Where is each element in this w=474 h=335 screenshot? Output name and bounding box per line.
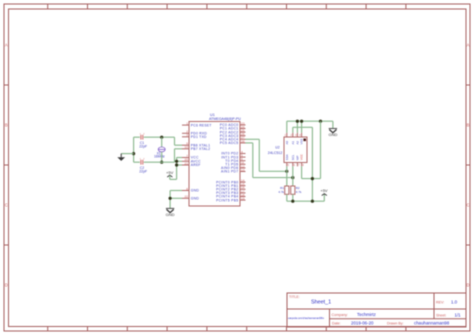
svg-text:REV:: REV: xyxy=(436,301,444,305)
U1 pin 8 (GND) xyxy=(182,187,199,193)
+5V power symbol (EEPROM) xyxy=(320,188,328,195)
wire XTAL1 stub xyxy=(175,144,183,146)
svg-text:C: C xyxy=(5,203,8,208)
C2 value 22pF xyxy=(139,169,147,173)
capacitor C2 xyxy=(140,158,146,164)
U1 pin 21 (AREF) xyxy=(182,161,201,167)
U2 value 24LC512 xyxy=(268,151,283,155)
svg-text:B: B xyxy=(5,123,8,128)
svg-text:+5V: +5V xyxy=(166,170,174,175)
node crystal bottom junction xyxy=(160,161,163,164)
wire SDA rail xyxy=(259,170,287,172)
U2 pin 6 (SCL) bottom xyxy=(291,154,296,167)
wire second rail xyxy=(293,126,313,128)
U2 pin 8 (VCC) bottom xyxy=(300,154,305,167)
wire right long vertical xyxy=(311,127,313,201)
U1 pin 26 (PC3 ADC3) xyxy=(220,132,246,138)
svg-text:PCINT5 PB5: PCINT5 PB5 xyxy=(216,198,238,202)
svg-text:Techmirtz: Techmirtz xyxy=(357,312,376,317)
U1 pin 22 (GND) xyxy=(182,195,199,201)
svg-text:GND: GND xyxy=(166,212,175,217)
U1 pin 17 (PCINT3 PB3) xyxy=(216,189,245,195)
svg-text:Date:: Date: xyxy=(332,322,341,326)
U2 pin 5 (SDA) bottom xyxy=(285,154,290,167)
svg-text:PC6 RESET: PC6 RESET xyxy=(191,123,212,127)
wire crystal bottom lead xyxy=(161,152,163,162)
node AVCC junction xyxy=(175,160,178,163)
svg-text:GND: GND xyxy=(328,132,337,137)
R1 label xyxy=(280,186,284,190)
R2 label xyxy=(296,186,300,190)
svg-text:Company:: Company: xyxy=(332,313,348,317)
wire U2 VCC drop xyxy=(301,166,303,178)
U1 pin 10 (PB7 XTAL2) xyxy=(182,145,210,151)
R1 value 4.7k xyxy=(278,190,284,194)
U2 reference designator xyxy=(275,146,279,150)
C1 label xyxy=(140,141,144,145)
U1 pin 5 (INT1 PD3) xyxy=(221,154,245,160)
svg-text:8: 8 xyxy=(186,187,188,191)
wire SCL rail xyxy=(253,177,293,179)
ground (top right) xyxy=(328,129,337,138)
wire GND top rail xyxy=(287,120,333,122)
X1 label xyxy=(157,151,161,155)
X1 value 16MHz xyxy=(154,155,165,159)
svg-text:PC5 ADC5: PC5 ADC5 xyxy=(220,141,239,145)
svg-text:1: 1 xyxy=(186,122,188,126)
wire bottom rail C2 to corner xyxy=(144,161,175,163)
+5V power symbol (near U1) xyxy=(166,170,174,177)
wire VCC horizontal xyxy=(302,178,321,180)
U2 pin 3 (A2) top xyxy=(295,133,299,145)
svg-text:PD1 TXD: PD1 TXD xyxy=(191,135,207,139)
wire PC5/SCL horizontal from pin xyxy=(246,142,253,144)
svg-text:A1: A1 xyxy=(291,141,295,145)
svg-text:13: 13 xyxy=(241,168,245,172)
wire R2 bottom xyxy=(292,194,294,201)
node GND junction xyxy=(169,197,172,200)
C2 label xyxy=(140,166,144,170)
svg-text:A: A xyxy=(5,43,8,48)
wire top rail to C1 xyxy=(134,136,140,138)
U1 pin 7 (VCC) xyxy=(182,154,199,160)
U1 pin 2 (PD0 RXD) xyxy=(182,130,207,136)
wire left vertical of crystal loop xyxy=(133,137,135,162)
svg-text:Sheet_1: Sheet_1 xyxy=(311,300,331,306)
svg-text:D: D xyxy=(5,283,8,288)
U2 pin 1 (A0) top xyxy=(285,133,289,145)
R2 value 4.7k xyxy=(296,190,302,194)
svg-text:B: B xyxy=(467,123,470,128)
title block xyxy=(287,293,466,327)
U1 pin 24 (PC1 ADC1) xyxy=(220,125,246,131)
svg-text:TITLE:: TITLE: xyxy=(289,295,300,299)
wire U2 pin3 drop xyxy=(296,121,298,133)
wire PC5/SCL vertical xyxy=(252,143,254,178)
wire VCC tie vertical xyxy=(176,158,178,180)
svg-text:3: 3 xyxy=(186,133,188,137)
wire GND corner vertical xyxy=(332,121,334,128)
svg-text:D: D xyxy=(466,283,469,288)
node VCC junction xyxy=(311,177,314,180)
svg-text:4.7k: 4.7k xyxy=(296,190,302,194)
wire XTAL2 stub xyxy=(175,148,183,150)
capacitor C1 xyxy=(140,133,146,139)
wire XTAL2 corner vertical xyxy=(174,149,176,162)
U2 pin 2 (A1) top xyxy=(291,133,295,145)
U1 pin 3 (PD1 TXD) xyxy=(182,133,207,139)
svg-text:AIN1 PD7: AIN1 PD7 xyxy=(221,170,238,174)
U1 pin 16 (PCINT2 PB2) xyxy=(216,186,245,192)
row letters A-D xyxy=(5,43,470,288)
node R2 bottom junction xyxy=(291,200,294,203)
U1 pin 12 (AIN0 PD6) xyxy=(221,164,245,170)
node SCL junction xyxy=(291,176,294,179)
U1 pin 13 (AIN1 PD7) xyxy=(221,168,245,174)
svg-text:21: 21 xyxy=(185,161,189,165)
wire GND pin 8 xyxy=(170,190,182,192)
wire U2 pin2 drop xyxy=(292,127,294,132)
wire SCL drop to R2 xyxy=(292,166,294,186)
wire crystal top lead xyxy=(161,137,163,147)
svg-text:A0: A0 xyxy=(285,141,289,145)
svg-text:GND: GND xyxy=(191,189,200,193)
ground (left, arrow style) xyxy=(117,154,125,161)
node C1/C2 ground junction xyxy=(132,152,135,155)
U1 pin 4 (INT0 PD2) xyxy=(221,150,245,156)
wire PC4/SDA vertical xyxy=(258,139,260,171)
svg-text:4.7k: 4.7k xyxy=(278,190,284,194)
svg-text:1/1: 1/1 xyxy=(455,312,462,317)
wire U2 pin4 drop xyxy=(301,121,303,133)
U1 pin 9 (PB6 XTAL1) xyxy=(182,142,210,148)
svg-text:22pF: 22pF xyxy=(139,144,147,148)
svg-text:19: 19 xyxy=(241,197,245,201)
svg-text:2019-06-20: 2019-06-20 xyxy=(351,321,374,326)
svg-text:U2: U2 xyxy=(275,146,279,150)
svg-text:16MHz: 16MHz xyxy=(154,155,165,159)
wire SDA drop to R1 xyxy=(286,166,288,186)
svg-text:PB7 XTAL2: PB7 XTAL2 xyxy=(191,147,210,151)
wire +5V corner horizontal xyxy=(170,178,177,180)
svg-text:VSS: VSS xyxy=(300,139,304,145)
node AREF junction xyxy=(175,163,178,166)
wire GND drop right xyxy=(320,121,322,178)
svg-text:AREF: AREF xyxy=(191,163,201,167)
wire R1 bottom xyxy=(286,194,288,201)
svg-text:SDA: SDA xyxy=(285,154,289,160)
wire U2 pin1 drop xyxy=(286,121,288,133)
U1 pin 11 (T1 PD5) xyxy=(225,161,245,167)
wire top rail C1 to corner xyxy=(144,136,175,138)
wire GND vertical xyxy=(169,191,171,209)
wire PC4/SDA horizontal from pin xyxy=(246,138,260,140)
ground (under U1) xyxy=(166,208,175,217)
node crystal top junction xyxy=(160,136,163,139)
svg-text:Drawn By:: Drawn By: xyxy=(387,322,404,326)
wire bottom rail to C2 xyxy=(134,161,140,163)
wire +5V stub (EEPROM) xyxy=(323,194,325,201)
node pin3 junction xyxy=(296,120,299,123)
U1 pin 6 (T0 PD4) xyxy=(225,157,245,163)
wire GND pin 22 xyxy=(170,197,182,199)
svg-text:ATMEGA48(8)P-PU: ATMEGA48(8)P-PU xyxy=(209,117,241,121)
svg-text:Sheet:: Sheet: xyxy=(436,313,446,317)
svg-text:GND: GND xyxy=(191,197,200,201)
wire XTAL1 corner vertical xyxy=(174,137,176,145)
node right drop junction xyxy=(319,120,322,123)
U2 pin 4 (VSS) top xyxy=(299,133,303,145)
svg-text:SCL: SCL xyxy=(291,154,295,160)
U1 pin 25 (PC2 ADC2) xyxy=(220,129,246,135)
wire to left ground xyxy=(121,153,133,155)
U2 pin 7 (WP) bottom xyxy=(296,155,301,166)
svg-text:1.0: 1.0 xyxy=(451,300,458,305)
wire +5V stub down xyxy=(169,175,171,179)
wire AREF stub xyxy=(177,164,182,166)
resistor R2 xyxy=(291,186,295,194)
U1 pin 19 (PCINT5 PB5) xyxy=(216,197,245,203)
op IC U1 body xyxy=(189,122,240,207)
U1 pin 18 (PCINT4 PB4) xyxy=(216,193,245,199)
U1 pin 15 (PCINT1 PB1) xyxy=(216,182,245,188)
svg-text:chauhannaman98: chauhannaman98 xyxy=(414,321,450,326)
U1 pin 28 (PC5 ADC5) xyxy=(220,139,246,145)
U1 pin 1 (PC6 RESET) xyxy=(182,122,212,128)
svg-text:22: 22 xyxy=(185,195,189,199)
U1 pin 27 (PC4 ADC4) xyxy=(220,136,246,142)
wire VCC stub xyxy=(177,157,182,159)
node pin4 junction xyxy=(300,120,303,123)
svg-text:C: C xyxy=(466,203,469,208)
svg-text:24LC512: 24LC512 xyxy=(268,151,283,155)
node SDA junction xyxy=(285,170,288,173)
U1 pin 20 (AVCC) xyxy=(182,158,201,164)
U1 pin 14 (PCINT0 PB0) xyxy=(216,179,245,185)
wire AVCC stub xyxy=(177,160,182,162)
svg-text:+5V: +5V xyxy=(320,188,328,193)
svg-text:22pF: 22pF xyxy=(139,169,147,173)
svg-text:easyeda.com/chauhannaman98/e: easyeda.com/chauhannaman98/e xyxy=(288,317,325,320)
U1 reference designator xyxy=(210,113,215,117)
svg-text:28: 28 xyxy=(241,139,245,143)
IC U2 body xyxy=(284,137,307,163)
U1 pin 23 (PC0 ADC0) xyxy=(220,121,246,127)
resistor R1 xyxy=(285,186,289,194)
svg-text:VCC: VCC xyxy=(300,154,304,160)
node bottom rail junction xyxy=(311,200,314,203)
crystal X1 xyxy=(158,147,165,152)
wire bottom +5V rail xyxy=(287,200,325,202)
svg-text:10: 10 xyxy=(185,145,189,149)
C1 value 22pF xyxy=(139,144,147,148)
title block texts xyxy=(289,295,446,326)
svg-text:A: A xyxy=(467,43,470,48)
U1 value ATMEGA48(8)P-PU xyxy=(209,117,241,121)
